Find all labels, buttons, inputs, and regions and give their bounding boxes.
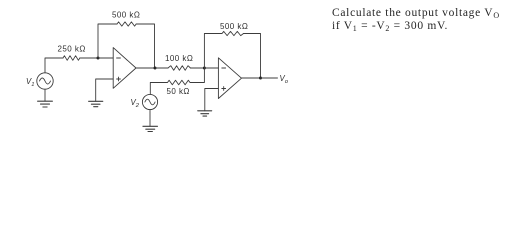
wire U2 output bbox=[242, 77, 261, 79]
svg-text:V2: V2 bbox=[131, 98, 140, 109]
wire output to Vo bbox=[261, 77, 278, 79]
wire feedback riser left (stage 2) bbox=[204, 34, 222, 69]
ground (under V2) bbox=[143, 126, 158, 131]
wire feedback top-right and drop to output (stage 2) bbox=[244, 34, 261, 79]
resistor 500k (stage-2 feedback) bbox=[222, 31, 244, 35]
svg-text:500 kΩ: 500 kΩ bbox=[112, 11, 140, 20]
ground (U2 non-inverting) bbox=[198, 111, 212, 116]
resistor R2 500k (stage-1 feedback) bbox=[117, 22, 136, 26]
node C (inverting input junction, stage 2) bbox=[203, 67, 206, 70]
wire V1 to ground bbox=[44, 89, 46, 101]
wire node C to op-amp 2 minus bbox=[204, 67, 218, 69]
node A (inverting input junction, stage 1) bbox=[97, 57, 100, 60]
wire resistor to node A bbox=[80, 57, 98, 59]
op-amp U2 bbox=[218, 58, 241, 99]
wire op-amp U1 plus input to ground bbox=[96, 79, 114, 101]
resistor 100k bbox=[168, 66, 191, 71]
ground (U1 non-inverting) bbox=[89, 101, 103, 106]
label V2 bbox=[131, 98, 140, 109]
wire op-amp U2 plus input to ground bbox=[205, 89, 219, 111]
label Vo bbox=[280, 74, 289, 85]
wire V2 to ground bbox=[149, 109, 151, 126]
wire feedback riser left (stage 1) bbox=[98, 24, 117, 58]
svg-text:Vo: Vo bbox=[280, 74, 289, 85]
node D (U2 output junction) bbox=[259, 77, 262, 80]
svg-text:100 kΩ: 100 kΩ bbox=[165, 54, 193, 63]
ground (under V1) bbox=[38, 101, 53, 107]
resistor 250k bbox=[63, 56, 80, 61]
svg-text:500 kΩ: 500 kΩ bbox=[220, 22, 248, 31]
wire node A to op-amp minus bbox=[98, 57, 113, 59]
op-amp U1 bbox=[113, 48, 136, 89]
node B (U1 output junction) bbox=[154, 67, 157, 70]
wire V1 top to input row bbox=[45, 58, 63, 73]
wire U1 output bbox=[136, 67, 155, 69]
svg-text:50 kΩ: 50 kΩ bbox=[167, 87, 190, 96]
svg-text:V1: V1 bbox=[26, 77, 34, 88]
resistor 50k bbox=[150, 68, 204, 94]
problem statement text bbox=[332, 7, 507, 34]
svg-text:250 kΩ: 250 kΩ bbox=[58, 45, 86, 54]
label V1 bbox=[26, 77, 34, 88]
wire node B to 100k bbox=[155, 67, 168, 69]
source V2 bbox=[142, 94, 157, 109]
wire feedback top-right and drop to output (stage 1) bbox=[136, 24, 154, 68]
source V1 bbox=[37, 73, 53, 89]
wire 100k to node C bbox=[190, 67, 204, 69]
